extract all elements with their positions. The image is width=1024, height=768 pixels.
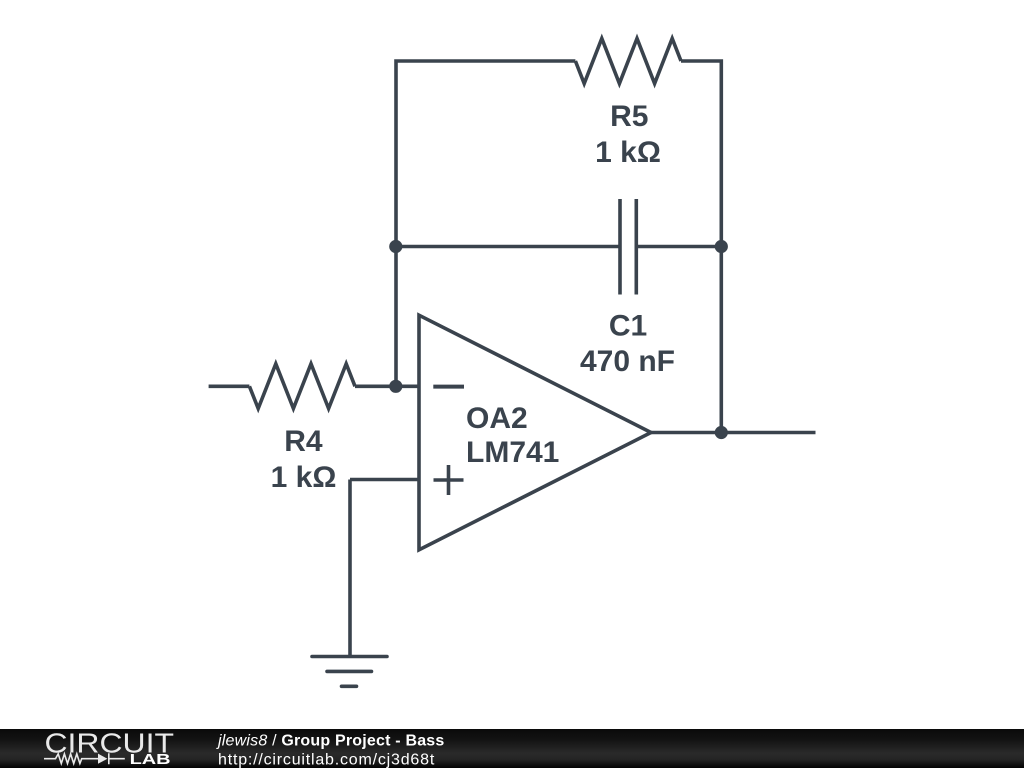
resistor R4 — [249, 364, 355, 409]
svg-text:R4: R4 — [284, 425, 323, 458]
capacitor C1 — [620, 199, 636, 295]
node A junction dot — [389, 240, 402, 253]
svg-text:R5: R5 — [610, 100, 648, 133]
wire non-inverting input pin — [350, 478, 419, 482]
wire R4 left lead — [209, 384, 250, 388]
svg-text:1 kΩ: 1 kΩ — [271, 461, 337, 494]
svg-text:OA2: OA2 — [466, 402, 528, 435]
wire node A to C1 left plate — [396, 245, 620, 249]
wire R4 to inverting input pin — [355, 384, 419, 388]
svg-text:1 kΩ: 1 kΩ — [595, 136, 661, 169]
svg-text:470 nF: 470 nF — [580, 345, 675, 378]
svg-text:jlewis8 / Group Project - Bass: jlewis8 / Group Project - Bass — [216, 733, 445, 750]
svg-text:http://circuitlab.com/cj3d68t: http://circuitlab.com/cj3d68t — [218, 751, 435, 768]
wire output — [651, 431, 816, 435]
wire right rail node B down to output node — [719, 247, 723, 433]
wire C1 right plate to node B — [636, 245, 721, 249]
ground — [312, 657, 387, 687]
CircuitLab logo resistor-diode glyph — [44, 753, 125, 764]
footer bar — [0, 729, 1024, 768]
svg-text:LAB: LAB — [130, 751, 171, 768]
wire non-inverting input down to ground — [348, 480, 352, 657]
op-amp plus sign — [434, 465, 464, 495]
wire left feedback rail (node A up to top) — [396, 61, 575, 246]
resistor R5 — [575, 39, 681, 84]
inverting input junction dot — [389, 380, 402, 393]
output junction dot — [715, 426, 728, 439]
op-amp minus sign — [433, 385, 464, 389]
svg-text:LM741: LM741 — [466, 436, 559, 469]
wire node A down to inverting input node — [394, 247, 398, 387]
wire R5 right lead to right rail — [681, 61, 721, 247]
svg-text:C1: C1 — [609, 310, 647, 343]
node B junction dot — [715, 240, 728, 253]
op-amp OA2 — [419, 315, 651, 550]
